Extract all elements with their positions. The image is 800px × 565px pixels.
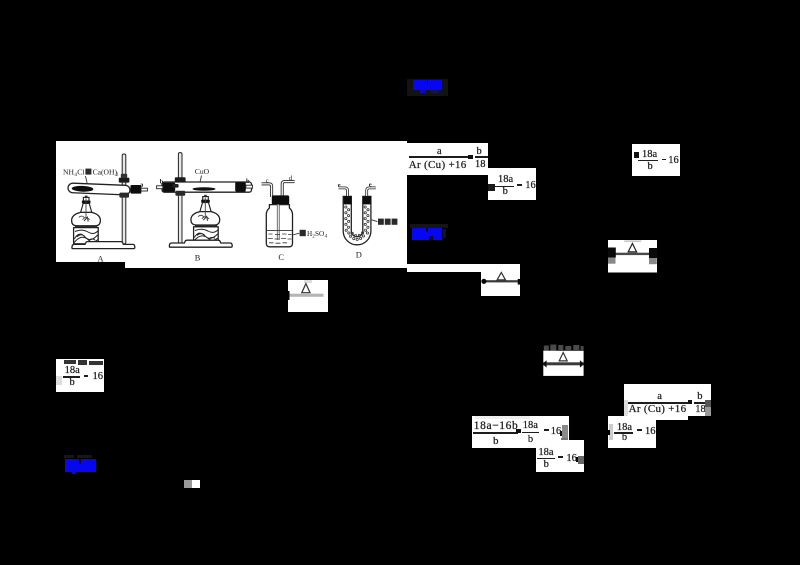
delta box mid [288, 280, 328, 312]
apparatus A: base [72, 242, 135, 249]
svg-text:A: A [98, 254, 104, 261]
equation box lower-left: 18a/b - 16 [56, 359, 104, 392]
apparatus A: test tube [68, 183, 130, 195]
apparatus C: label H2SO4 [300, 230, 306, 236]
apparatus B: tube [162, 182, 252, 192]
apparatus A: wood block [75, 226, 97, 228]
figure: chemistry apparatus image [56, 141, 407, 262]
svg-text:2: 2 [116, 172, 119, 178]
equation box 1: a/(Ar(Cu)+16) x b/18 [407, 143, 488, 175]
apparatus C: liquid [267, 229, 292, 231]
apparatus C: inner tube [277, 205, 280, 241]
svg-text:D: D [356, 251, 362, 260]
blue highlight 3 [64, 455, 74, 458]
apparatus D: bent tubes e [339, 188, 348, 196]
blue highlight 1 [407, 79, 448, 96]
apparatus A: label pointer line [86, 176, 88, 187]
svg-text:b: b [246, 178, 250, 185]
svg-text:NH: NH [63, 168, 74, 177]
apparatus C: inlet tube c [262, 184, 272, 197]
apparatus A: clamp [119, 178, 130, 183]
apparatus A: stopper and outlet a [130, 185, 141, 194]
svg-text:Cl: Cl [77, 168, 84, 177]
apparatus D: U-tube [343, 196, 371, 244]
apparatus B: CuO powder [193, 187, 216, 190]
equation box 3 top-right: 18a/b - 16 [632, 144, 680, 176]
blue highlight 2 [410, 224, 448, 229]
apparatus C: inlet tube d [282, 182, 294, 197]
svg-text:c: c [266, 177, 269, 184]
delta box A (top right) [608, 240, 657, 273]
apparatus B: base [169, 240, 232, 247]
equation box 6: 18a/b - 16 [608, 416, 657, 448]
equation box 5: (18a-16b)/b . 18a/b -16 [472, 416, 568, 448]
svg-text:a: a [140, 182, 144, 189]
apparatus B: left stopper [163, 183, 176, 192]
svg-text:CuO: CuO [195, 167, 210, 176]
svg-text:b: b [160, 178, 164, 185]
svg-text:e: e [369, 181, 372, 188]
wire [125, 262, 407, 269]
apparatus B: right stopper [235, 182, 246, 191]
apparatus B: alcohol lamp [204, 195, 207, 197]
svg-text:e: e [338, 182, 341, 189]
svg-text:Ca(OH): Ca(OH) [93, 168, 118, 177]
apparatus A: solid contents [72, 185, 94, 192]
svg-text:SO: SO [315, 230, 324, 238]
small gray+white blob [184, 480, 192, 488]
apparatus C: bottle [266, 205, 292, 247]
apparatus D: soda lime label [378, 219, 384, 225]
apparatus D: stoppers [344, 196, 352, 204]
apparatus A: alcohol lamp [85, 196, 88, 198]
apparatus A: stand rod [122, 154, 126, 244]
apparatus C: stopper [272, 195, 289, 204]
apparatus A: label NH4Cl/Ca(OH)2 [63, 168, 119, 179]
equation box 4 (lower right): a/(Ar(Cu)+16) x b/18 [624, 384, 711, 416]
apparatus B: clamp [175, 177, 186, 182]
delta box B [481, 264, 521, 296]
equation box 7: 18a/b - 16 [536, 440, 585, 472]
apparatus B: stand rod [178, 153, 182, 244]
apparatus B: wood block [195, 225, 217, 227]
equation box 2: 18a/b - 16 [488, 168, 536, 201]
svg-text:C: C [278, 253, 284, 262]
svg-text:4: 4 [325, 233, 328, 239]
delta arrow box (lower) [542, 344, 585, 376]
apparatus D: granules [345, 206, 369, 241]
svg-text:B: B [195, 254, 201, 262]
